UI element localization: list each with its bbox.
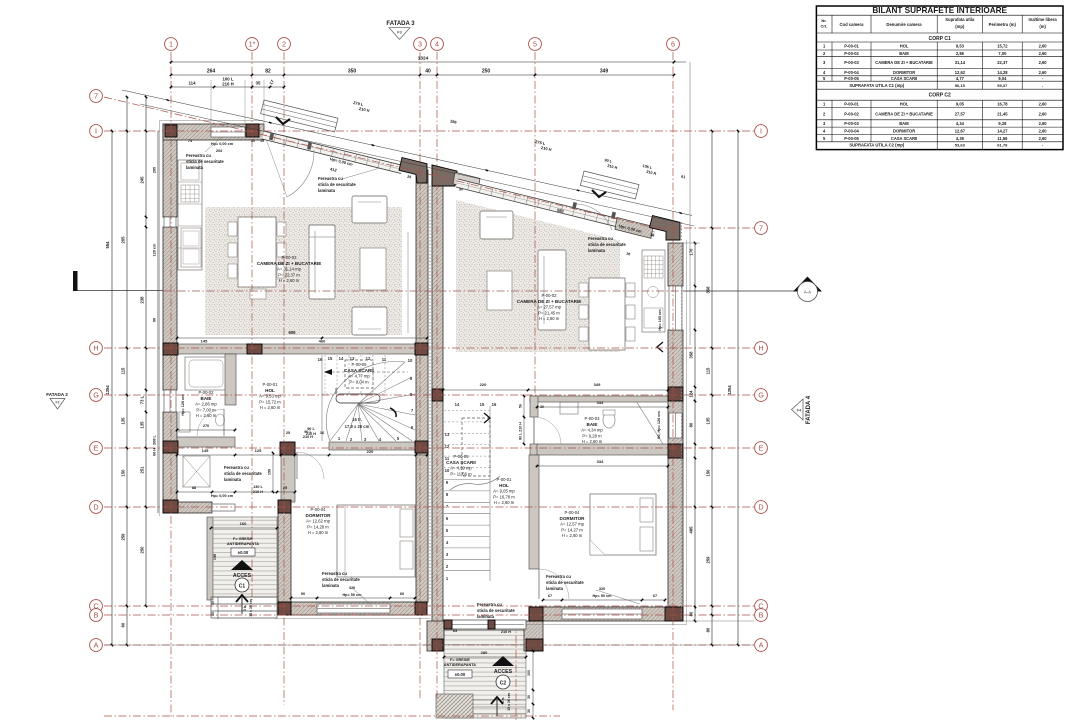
svg-text:30: 30 (211, 612, 215, 616)
svg-text:135: 135 (706, 417, 711, 425)
svg-text:35: 35 (256, 81, 261, 86)
svg-text:210 H: 210 H (222, 82, 233, 87)
axis E horizontal (104, 447, 754, 449)
svg-text:9,05: 9,05 (956, 102, 965, 107)
axis bubble A (90, 639, 103, 652)
axis bubble 7 (90, 90, 103, 103)
entry steps C2 (rotated) (580, 171, 639, 199)
svg-text:laminata: laminata (588, 248, 606, 253)
svg-text:CAMERA DE ZI + BUCATARIE: CAMERA DE ZI + BUCATARIE (517, 299, 582, 304)
door swing C2 entry (577, 204, 612, 230)
svg-text:CASA SCARII: CASA SCARII (344, 368, 374, 373)
svg-text:60: 60 (121, 622, 126, 627)
svg-text:laminata: laminata (546, 586, 564, 591)
axis 3 vertical (419, 52, 421, 700)
svg-text:67: 67 (653, 594, 657, 598)
svg-text:15 x 30 cm: 15 x 30 cm (249, 599, 253, 617)
svg-text:±0.00: ±0.00 (238, 550, 249, 555)
wall S C2 (529, 607, 683, 621)
svg-text:13: 13 (260, 139, 264, 143)
svg-text:1354: 1354 (727, 385, 732, 395)
svg-text:D: D (758, 502, 763, 511)
svg-text:15: 15 (328, 356, 333, 361)
svg-text:334: 334 (597, 459, 604, 464)
svg-text:30: 30 (527, 695, 531, 699)
svg-text:358: 358 (689, 351, 694, 359)
party wall seam (429, 186, 431, 600)
party wall right strip (432, 182, 443, 639)
svg-text:H = 2,60 m: H = 2,60 m (539, 316, 560, 321)
svg-text:88: 88 (192, 486, 196, 490)
svg-text:485: 485 (689, 526, 694, 534)
axis bubble E (90, 442, 103, 455)
column S C1 west (278, 602, 291, 615)
diagonal block party top right (432, 165, 457, 186)
svg-text:Fereastra cu: Fereastra cu (588, 236, 613, 241)
svg-text:HOL: HOL (265, 388, 275, 393)
svg-text:P-00-02: P-00-02 (542, 293, 558, 298)
axis bubble E (755, 442, 768, 455)
svg-text:4: 4 (435, 39, 439, 48)
svg-text:358: 358 (706, 286, 711, 294)
svg-text:CORP C1: CORP C1 (929, 36, 951, 42)
right extension lines (683, 242, 700, 244)
svg-text:30: 30 (527, 709, 531, 713)
ACCES C1 triangle (231, 560, 253, 570)
svg-text:9,53: 9,53 (956, 44, 965, 49)
svg-text:15 x 30 cm: 15 x 30 cm (507, 693, 511, 711)
svg-text:P= 9,28 m: P= 9,28 m (582, 433, 602, 438)
axis bubble G (755, 389, 768, 402)
partition H wall C1 (177, 344, 427, 354)
section A-A left mark (73, 271, 78, 291)
svg-text:A: A (94, 640, 99, 649)
entry steps C1 (rotated) (261, 100, 338, 132)
axis bubble I (90, 125, 103, 138)
svg-text:P= 14,28 m: P= 14,28 m (307, 524, 329, 529)
partition C2 west of baie upper (530, 396, 538, 417)
svg-text:DORMITOR: DORMITOR (560, 516, 586, 521)
svg-text:H = 2,60 m: H = 2,60 m (494, 500, 515, 505)
svg-text:CASA SCARII: CASA SCARII (446, 460, 476, 465)
C2 top wall sill piece (453, 172, 480, 190)
wall E C2 baie (668, 401, 683, 444)
svg-text:laminata: laminata (224, 477, 242, 482)
svg-text:FATADA 4: FATADA 4 (806, 395, 812, 424)
svg-text:DORMITOR: DORMITOR (306, 513, 332, 518)
svg-text:Fereastra cu: Fereastra cu (546, 574, 571, 579)
svg-text:4,77: 4,77 (956, 76, 965, 81)
svg-text:E: E (759, 443, 764, 452)
svg-text:P-00-04: P-00-04 (844, 70, 859, 75)
jamb porch C2 mid (488, 620, 495, 629)
column S C2 east corner (665, 607, 683, 621)
porch C2 steps (473, 699, 526, 701)
door baie C1 swing (223, 409, 225, 436)
svg-text:1354: 1354 (105, 385, 110, 395)
svg-text:90 L: 90 L (307, 427, 315, 431)
svg-text:P-00-01: P-00-01 (263, 382, 279, 387)
column porch C2 right (526, 639, 543, 651)
kitchen counter C2 (642, 250, 665, 332)
dining table C2 (589, 278, 625, 350)
svg-text:90: 90 (153, 318, 157, 322)
svg-text:I: I (95, 126, 97, 135)
svg-text:H = 2,60 m: H = 2,60 m (260, 405, 281, 410)
svg-text:P= 11,56 m: P= 11,56 m (450, 471, 472, 476)
svg-text:259: 259 (706, 556, 711, 564)
axis 2 vertical (283, 52, 285, 705)
svg-text:25: 25 (286, 431, 290, 435)
svg-text:A-A: A-A (804, 290, 811, 295)
partition E wall C2 (537, 444, 668, 455)
ACCES C2 triangle (492, 656, 514, 666)
svg-text:460: 460 (319, 339, 326, 344)
partition hol C1 (281, 442, 295, 502)
svg-text:30: 30 (211, 601, 215, 605)
axis 4 vertical (436, 52, 438, 700)
svg-text:12,62: 12,62 (955, 70, 966, 75)
axis bubble 2 (278, 38, 291, 51)
svg-text:5: 5 (533, 39, 537, 48)
svg-text:150: 150 (706, 469, 711, 477)
svg-text:Fereastra cu: Fereastra cu (186, 153, 211, 158)
svg-text:210 H: 210 H (306, 432, 316, 436)
window S dormitor C1 (317, 604, 390, 613)
coffee table C2 (487, 271, 512, 310)
axis I horizontal (104, 130, 754, 132)
svg-text:349: 349 (594, 382, 601, 387)
svg-text:P-00-04: P-00-04 (565, 510, 581, 515)
svg-text:2,60: 2,60 (1039, 111, 1048, 116)
svg-text:21,45: 21,45 (997, 111, 1008, 116)
svg-text:350: 350 (348, 69, 357, 75)
svg-text:C2: C2 (500, 681, 507, 687)
svg-text:Hp= 50 cm: Hp= 50 cm (342, 593, 362, 597)
svg-text:56: 56 (519, 404, 523, 408)
radiator niche C1 (252, 225, 259, 259)
living room floor finish C1 (205, 207, 402, 335)
svg-text:124: 124 (689, 390, 694, 398)
axis bubble H (90, 342, 103, 355)
top dimension chain tier3 (171, 86, 284, 88)
axis bubble 1* (246, 38, 259, 51)
svg-text:220: 220 (367, 449, 374, 454)
left wall face dims (157, 131, 159, 513)
shower C2 (636, 401, 663, 444)
svg-text:F= GRESIE: F= GRESIE (450, 658, 470, 662)
window top C1 (211, 127, 245, 137)
svg-text:15,72: 15,72 (997, 44, 1008, 49)
svg-text:A= 12,57 mp: A= 12,57 mp (560, 522, 585, 527)
svg-text:80 L 210 H: 80 L 210 H (519, 422, 523, 440)
svg-text:13: 13 (445, 432, 450, 437)
svg-text:59,37: 59,37 (997, 83, 1008, 88)
svg-text:238: 238 (140, 296, 145, 304)
svg-text:P-00-03: P-00-03 (282, 255, 298, 260)
svg-text:BAIE: BAIE (899, 51, 909, 56)
svg-text:(m): (m) (1039, 24, 1046, 29)
sofa C2 (538, 250, 566, 330)
column E C2 at G (668, 387, 683, 401)
svg-text:14: 14 (455, 402, 460, 407)
svg-text:12,67: 12,67 (955, 128, 966, 133)
diagonal dims along facade (122, 90, 692, 216)
svg-text:sticla de securitate: sticla de securitate (318, 182, 356, 187)
axis 1 vertical (170, 52, 172, 718)
svg-text:114: 114 (188, 81, 196, 86)
svg-text:H: H (758, 343, 763, 352)
column H wall mid (247, 344, 262, 354)
svg-text:HOL: HOL (499, 483, 509, 488)
svg-text:320: 320 (599, 587, 605, 591)
top dimension chain overall 1324 (171, 61, 686, 63)
svg-text:210 H: 210 H (253, 490, 263, 494)
svg-text:554: 554 (105, 241, 110, 249)
stair C1 up direction dashed (332, 371, 408, 373)
svg-text:170: 170 (689, 248, 694, 256)
axis bubble 4 (431, 38, 444, 51)
axis bubble G (90, 389, 103, 402)
svg-text:14,28: 14,28 (997, 70, 1008, 75)
sink C1 (179, 412, 190, 432)
svg-text:190: 190 (213, 554, 217, 560)
svg-text:14,27: 14,27 (997, 128, 1008, 133)
svg-text:2,86: 2,86 (956, 51, 965, 56)
svg-text:30: 30 (251, 139, 255, 143)
svg-text:P-00-01: P-00-01 (844, 44, 859, 49)
svg-text:259: 259 (121, 533, 126, 541)
svg-text:P= 22,37 m: P= 22,37 m (278, 272, 300, 277)
svg-text:16: 16 (318, 357, 323, 362)
svg-text:P-00-01: P-00-01 (497, 477, 513, 482)
svg-text:P= 15,72 m: P= 15,72 m (259, 399, 281, 404)
svg-text:16: 16 (320, 431, 324, 435)
svg-text:P-00-02: P-00-02 (844, 51, 859, 56)
svg-text:3: 3 (418, 39, 422, 48)
svg-text:Hp= 50 cm: Hp= 50 cm (592, 594, 612, 598)
svg-text:P-00-04: P-00-04 (311, 507, 327, 512)
svg-text:laminata: laminata (186, 165, 204, 170)
svg-text:F2: F2 (56, 401, 60, 405)
svg-text:25: 25 (283, 486, 287, 490)
living room floor finish C2 (456, 200, 620, 352)
svg-text:Suprafata utila: Suprafata utila (945, 17, 975, 22)
porch C2 up arrow (496, 699, 498, 716)
svg-text:17,8 x 28 cm: 17,8 x 28 cm (345, 424, 370, 429)
axis bubble D (755, 501, 768, 514)
svg-text:53,63: 53,63 (955, 143, 966, 148)
svg-text:61,78: 61,78 (997, 143, 1008, 148)
axis G horizontal (104, 394, 754, 396)
svg-text:E: E (94, 443, 99, 452)
wall W dormitor C1 (278, 513, 291, 602)
svg-text:H = 2,60 m: H = 2,60 m (582, 439, 603, 444)
axis 6 vertical (672, 52, 674, 710)
svg-text:2,60: 2,60 (1039, 70, 1048, 75)
svg-text:P-00-03: P-00-03 (585, 416, 601, 421)
wall porch C2 right (524, 621, 543, 651)
svg-text:80, Hp= 120 cm: 80, Hp= 120 cm (657, 411, 661, 439)
interior dims C2 G (443, 389, 668, 391)
svg-text:BAIE: BAIE (899, 121, 909, 126)
axis bubble 7 (755, 222, 768, 235)
partition C2 west of baie lower jamb (530, 444, 538, 455)
svg-text:605: 605 (289, 330, 297, 335)
svg-text:63: 63 (453, 629, 457, 633)
vertical extension lines top (210, 80, 212, 124)
svg-text:A= 9,05 mp: A= 9,05 mp (493, 489, 515, 494)
axis bubble 1 (165, 38, 178, 51)
svg-text:15: 15 (480, 402, 485, 407)
svg-text:A: A (759, 640, 764, 649)
svg-text:ACCES: ACCES (494, 669, 513, 675)
wall W exterior C1 upper (163, 124, 177, 217)
axis D horizontal (104, 506, 754, 508)
svg-text:9,28: 9,28 (998, 121, 1007, 126)
porch ACCES C1 steps (211, 596, 277, 598)
svg-text:11,56: 11,56 (997, 136, 1008, 141)
sloped glazing C2 (456, 179, 656, 236)
svg-text:6: 6 (671, 39, 675, 48)
svg-text:HOL: HOL (900, 44, 909, 49)
sofa C1 (309, 225, 335, 299)
svg-text:P-00-02: P-00-02 (199, 390, 215, 395)
svg-text:P= 16,78 m: P= 16,78 m (493, 494, 515, 499)
svg-text:80: 80 (706, 627, 711, 632)
svg-text:P-00-05: P-00-05 (352, 362, 368, 367)
partition baie C1 east (225, 354, 236, 405)
column S C2 west (529, 607, 543, 621)
svg-text:laminata: laminata (477, 614, 495, 619)
porch C1 up arrow (241, 597, 243, 614)
east wall outer seam (681, 222, 683, 620)
svg-text:82: 82 (265, 69, 271, 75)
armchair C1 (352, 196, 387, 223)
svg-text:laminata: laminata (322, 583, 340, 588)
porch C2 glazed wall (444, 620, 526, 629)
svg-text:CAMERA DE ZI + BUCATARIE: CAMERA DE ZI + BUCATARIE (875, 111, 933, 116)
axis H horizontal (104, 347, 754, 349)
axis F diagonal (sloped facade) (104, 97, 655, 228)
svg-text:125: 125 (255, 448, 262, 453)
wall N top C1 (163, 124, 264, 140)
stair C2 arrow (484, 413, 490, 423)
svg-text:ANTIDERAPANTA: ANTIDERAPANTA (227, 542, 259, 546)
svg-text:I: I (760, 126, 762, 135)
svg-text:135: 135 (121, 417, 126, 425)
svg-text:204: 204 (216, 149, 223, 153)
svg-text:73 L: 73 L (140, 395, 145, 404)
entry steps C1 down arrow (276, 117, 290, 124)
svg-text:60: 60 (400, 592, 404, 596)
svg-text:2,60: 2,60 (1039, 51, 1048, 56)
left dimension line outer 1354 (111, 131, 113, 645)
svg-text:P= 14,27 m: P= 14,27 m (561, 527, 583, 532)
section A-A dashline through building (163, 290, 683, 292)
exterior contour offset lines (159, 121, 161, 517)
svg-text:1: 1 (169, 39, 173, 48)
svg-text:Hp= 0,00 cm: Hp= 0,00 cm (211, 494, 234, 498)
axis bubble 5 (529, 38, 542, 51)
extension line living C1 (407, 232, 409, 333)
svg-text:P= 9,04 m: P= 9,04 m (349, 379, 369, 384)
svg-text:Fereastra cu: Fereastra cu (318, 176, 343, 181)
svg-text:Hp= 120 cm: Hp= 120 cm (181, 394, 185, 416)
door swing C1 entry (287, 150, 314, 197)
svg-text:P-00-03: P-00-03 (844, 121, 859, 126)
axis bubble 6 (667, 38, 680, 51)
svg-text:1324: 1324 (418, 56, 429, 61)
winder stair C1 (321, 355, 323, 441)
svg-text:ANTIDERAPANTA: ANTIDERAPANTA (444, 663, 476, 667)
svg-text:F= GRESIE: F= GRESIE (233, 537, 253, 541)
porch C1 dims (211, 527, 277, 529)
interior dims E wall C1 (177, 454, 427, 456)
svg-text:A= 12,62 mp: A= 12,62 mp (306, 519, 331, 524)
armchair C1 bottom (352, 307, 387, 335)
svg-text:CAMERA DE ZI + BUCATARIE: CAMERA DE ZI + BUCATARIE (257, 261, 322, 266)
svg-text:31,14: 31,14 (955, 60, 966, 65)
svg-text:BILANT SUPRAFETE INTERIOARE: BILANT SUPRAFETE INTERIOARE (872, 6, 1007, 15)
column C1 NW corner (165, 125, 177, 137)
svg-text:205: 205 (153, 167, 157, 173)
svg-text:±0.00: ±0.00 (455, 672, 466, 677)
svg-text:13: 13 (350, 356, 355, 361)
porch ACCES C2 deck (444, 630, 526, 718)
axis bubble C (755, 600, 768, 613)
glazing C2 door jambs (572, 202, 577, 210)
window E baie C2 (669, 413, 682, 438)
svg-text:349: 349 (600, 69, 609, 75)
svg-text:250: 250 (482, 69, 491, 75)
svg-text:CAMERA DE ZI + BUCATARIE: CAMERA DE ZI + BUCATARIE (875, 60, 933, 65)
interior dims H wall (177, 337, 427, 339)
svg-text:H: H (93, 343, 98, 352)
svg-text:100: 100 (527, 670, 531, 676)
stair C1 handrail (336, 394, 380, 403)
wall E C2 mid (668, 330, 683, 387)
svg-text:Fereastra cu: Fereastra cu (477, 602, 502, 607)
porch C1 left low wall (207, 517, 213, 600)
svg-text:P-00-02: P-00-02 (844, 111, 859, 116)
svg-text:16 tr.: 16 tr. (352, 417, 362, 422)
window S dormitor C2 (562, 609, 642, 619)
svg-text:120 cm: 120 cm (153, 243, 157, 257)
sink C2 baie (560, 402, 578, 414)
bathtub C1 (185, 357, 227, 390)
wall E C2 upper (668, 243, 683, 286)
partition dormitor C2 west (529, 455, 539, 569)
svg-text:P-00-04: P-00-04 (844, 128, 859, 133)
svg-text:60 H: 60 H (153, 448, 157, 456)
svg-text:CASA SCARII: CASA SCARII (891, 136, 917, 141)
bottom window dims C1 (291, 597, 415, 599)
svg-text:67: 67 (548, 594, 552, 598)
armchair C2 (480, 211, 513, 239)
bed dormitor C1 (337, 505, 415, 577)
svg-text:SUPRAFATA UTILA C1 (mp): SUPRAFATA UTILA C1 (mp) (849, 83, 905, 88)
svg-text:Fereastra cu: Fereastra cu (322, 571, 347, 576)
wall W exterior C1 middle (163, 227, 177, 390)
svg-text:16,78: 16,78 (997, 102, 1008, 107)
column W at D corner (163, 500, 178, 513)
axis B horizontal (104, 614, 754, 616)
svg-text:205: 205 (121, 236, 126, 244)
entry steps C2 down arrow (592, 190, 606, 197)
vestibule dims C1 (177, 491, 295, 493)
svg-text:56,15: 56,15 (955, 83, 966, 88)
